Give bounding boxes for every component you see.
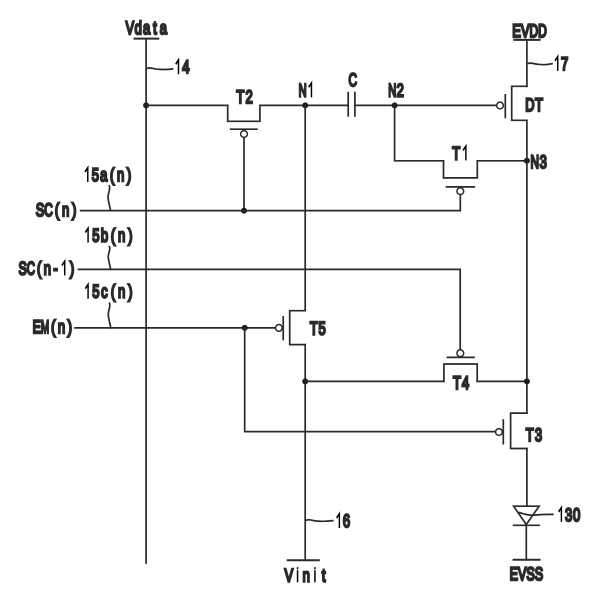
wire N2 down to T1 — [395, 105, 444, 160]
svg-text:C: C — [44, 199, 53, 220]
svg-text:d: d — [135, 17, 142, 38]
terminal EVSS — [510, 560, 544, 585]
svg-text:S: S — [535, 563, 544, 584]
transistor T4 — [444, 350, 477, 393]
wire Vinit column — [304, 345, 306, 561]
svg-text:0: 0 — [573, 504, 580, 525]
terminal Vdata — [126, 17, 168, 39]
label 17 — [528, 53, 568, 74]
svg-text:2: 2 — [246, 86, 253, 107]
svg-text:6: 6 — [343, 510, 350, 531]
svg-text:3: 3 — [535, 424, 542, 445]
label 15c(n) — [86, 281, 133, 328]
wire cap to DT gate — [355, 104, 497, 106]
label SC(n-1) — [19, 258, 75, 279]
wire T4 left — [305, 380, 444, 382]
node T2 gate on SC(n) — [241, 208, 247, 214]
svg-text:2: 2 — [397, 80, 404, 101]
svg-text:t: t — [153, 17, 157, 38]
svg-text:c: c — [101, 281, 108, 302]
terminal EVDD — [512, 20, 547, 41]
svg-text:C: C — [27, 258, 35, 279]
svg-text:7: 7 — [561, 53, 568, 74]
transistor T3 — [496, 413, 543, 448]
svg-text:D: D — [525, 94, 534, 115]
svg-text:T: T — [310, 318, 318, 339]
svg-text:5: 5 — [92, 281, 99, 302]
svg-text:3: 3 — [565, 504, 572, 525]
capacitor C — [348, 69, 357, 116]
svg-text:T: T — [535, 94, 543, 115]
label 16 — [306, 510, 350, 531]
svg-text:T: T — [236, 86, 244, 107]
svg-text:-: - — [53, 258, 57, 279]
svg-text:4: 4 — [182, 56, 189, 77]
wire T2 gate — [243, 137, 245, 210]
svg-text:C: C — [349, 69, 358, 90]
node junction Vdata row — [143, 102, 149, 108]
wire N1 column — [304, 105, 306, 310]
svg-text:): ) — [70, 258, 74, 279]
svg-text:5: 5 — [92, 225, 99, 246]
svg-text:M: M — [41, 316, 49, 337]
svg-text:n: n — [118, 225, 125, 246]
node T4-N3 column — [524, 378, 530, 384]
svg-text:T: T — [452, 143, 460, 164]
svg-text:D: D — [538, 20, 547, 41]
svg-text:n: n — [44, 258, 51, 279]
wire T1 gate — [459, 195, 461, 211]
svg-text:(: ( — [111, 225, 116, 246]
svg-text:t: t — [322, 565, 326, 586]
svg-text:b: b — [101, 225, 108, 246]
transistor DT — [497, 86, 543, 120]
svg-text:a: a — [143, 17, 151, 38]
svg-text:N: N — [531, 151, 540, 172]
svg-text:V: V — [285, 565, 294, 586]
svg-text:n: n — [117, 164, 124, 185]
diode OLED — [514, 506, 540, 525]
svg-text:(: ( — [55, 199, 60, 220]
svg-text:n: n — [303, 565, 310, 586]
line EM(n) — [75, 327, 276, 329]
node EM branch — [242, 325, 248, 331]
node N2 — [388, 80, 404, 109]
wire N3 column — [526, 120, 528, 413]
svg-text:): ) — [128, 225, 132, 246]
svg-text:a: a — [100, 164, 108, 185]
svg-text:(: ( — [51, 316, 56, 337]
wire T2 to N1 — [260, 104, 348, 106]
transistor T1 — [444, 143, 478, 195]
svg-text:n: n — [118, 281, 125, 302]
svg-text:D: D — [530, 20, 539, 41]
svg-text:N: N — [299, 80, 307, 101]
wire EVDD column — [526, 40, 528, 86]
transistor T5 — [276, 311, 326, 345]
wire T1 to N3 — [477, 160, 527, 162]
line SC(n) — [81, 210, 461, 212]
svg-text:(: ( — [110, 164, 115, 185]
wire Vdata column — [145, 39, 147, 563]
node N1 — [299, 80, 312, 109]
svg-text:5: 5 — [92, 164, 99, 185]
label SC(n) — [36, 199, 77, 220]
label 130 — [520, 504, 581, 525]
svg-text:n: n — [62, 199, 69, 220]
svg-text:): ) — [127, 164, 131, 185]
svg-text:): ) — [128, 281, 132, 302]
wire EM branch to T3 gate — [245, 328, 496, 432]
svg-text:4: 4 — [462, 372, 469, 393]
svg-text:3: 3 — [540, 151, 547, 172]
svg-text:T: T — [453, 372, 461, 393]
svg-text:(: ( — [37, 258, 42, 279]
svg-text:5: 5 — [318, 318, 325, 339]
transistor T2 — [228, 86, 260, 137]
svg-text:n: n — [58, 316, 65, 337]
svg-text:S: S — [36, 199, 45, 220]
label 14 — [147, 56, 190, 77]
svg-text:): ) — [68, 316, 72, 337]
node N3 — [524, 151, 547, 172]
wire main row left — [146, 104, 228, 106]
svg-text:V: V — [126, 17, 135, 38]
wire T4 gate from SC(n-1) — [459, 269, 461, 349]
wire T4 right — [477, 380, 527, 382]
svg-text:(: ( — [111, 281, 116, 302]
svg-text:a: a — [160, 17, 168, 38]
node T5-T4 junction — [302, 378, 308, 384]
terminal Vinit — [285, 560, 326, 585]
label 15a(n) — [85, 164, 131, 210]
svg-text:T: T — [526, 424, 534, 445]
svg-text:E: E — [512, 20, 521, 41]
label 15b(n) — [86, 225, 133, 270]
line SC(n-1) — [78, 268, 460, 270]
wire OLED to EVSS — [525, 525, 527, 560]
label EM(n) — [33, 316, 72, 337]
svg-text:N: N — [388, 80, 396, 101]
svg-text:): ) — [72, 199, 76, 220]
wire T3 to OLED — [526, 449, 528, 507]
svg-text:V: V — [521, 20, 530, 41]
